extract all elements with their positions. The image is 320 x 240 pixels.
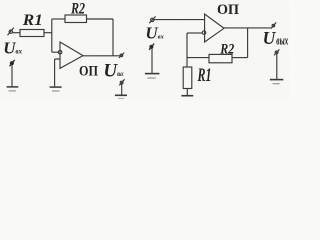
svg-text:R2: R2 (70, 1, 85, 18)
svg-text:вх: вх (16, 47, 23, 56)
svg-text:R2: R2 (219, 42, 234, 58)
svg-text:вых: вых (117, 70, 124, 78)
svg-text:вх: вх (158, 35, 164, 41)
svg-text:U: U (145, 24, 158, 43)
svg-text:R1: R1 (197, 66, 212, 86)
svg-text:вых: вых (276, 32, 288, 47)
svg-text:ОП: ОП (217, 2, 239, 18)
svg-text:U: U (3, 39, 16, 58)
svg-text:ОП: ОП (79, 64, 98, 80)
svg-text:U: U (263, 28, 277, 48)
svg-text:R1: R1 (22, 12, 43, 29)
